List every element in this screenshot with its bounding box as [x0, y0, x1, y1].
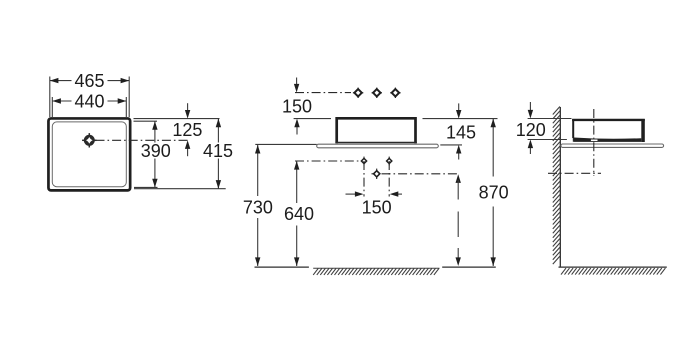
- supply centerline row B: [382, 173, 458, 175]
- dim 390 line + arrows: [152, 121, 157, 187]
- dim 145 arrow below: [456, 145, 461, 160]
- basin front bottom edge: [335, 142, 416, 144]
- dim 120 bottom extension line: [528, 139, 567, 141]
- drain centerline row A: [295, 160, 359, 162]
- svg-text:730: 730: [243, 198, 273, 218]
- svg-text:870: 870: [479, 182, 509, 202]
- svg-text:120: 120: [516, 120, 546, 140]
- dim 150 top arrow above: [294, 78, 299, 93]
- dim 150 bottom arrow left: [346, 191, 364, 196]
- drain hole symbol A2: [387, 157, 392, 166]
- drain symbol: [82, 133, 96, 147]
- dim 120 arrow below: [528, 140, 533, 155]
- svg-text:145: 145: [446, 122, 476, 142]
- svg-text:150: 150: [362, 197, 392, 217]
- basin inner rim (top view): [52, 122, 126, 187]
- dim 150 bottom arrow right: [390, 191, 402, 196]
- basin outer rim (top view): [48, 118, 130, 190]
- dim 125 arrow below: [185, 140, 190, 156]
- dim 120 arrow above: [528, 102, 533, 119]
- floor (front view): [255, 267, 496, 275]
- dim 150 top arrow below: [294, 119, 299, 135]
- dim 465 line + arrows: [50, 78, 129, 83]
- svg-text:150: 150: [282, 97, 312, 117]
- drain centerline: [96, 139, 191, 141]
- dim 415 line + arrows: [216, 119, 221, 189]
- wall hatching: [553, 107, 560, 265]
- countertop extension line left: [255, 143, 316, 145]
- dim 465 extension line left: [49, 77, 51, 118]
- svg-text:390: 390: [141, 141, 171, 161]
- dim 465 extension line right: [128, 77, 130, 118]
- svg-text:440: 440: [74, 91, 104, 111]
- dim 870 line + arrows: [491, 119, 496, 266]
- vertical drop line A1: [363, 161, 365, 197]
- tap centerline: [295, 92, 351, 94]
- wall line: [559, 107, 561, 267]
- tap hole symbol 2: [372, 88, 382, 98]
- extension line inner-bottom right: [134, 186, 158, 188]
- supply line (side): [548, 172, 601, 174]
- dim 145 arrow above: [456, 103, 461, 118]
- tap hole symbol 3: [390, 88, 400, 98]
- basin centerline (side): [593, 109, 595, 176]
- dim 440 extension line right: [125, 97, 127, 117]
- drain hole symbol A1: [361, 157, 366, 166]
- extension line inner-top right: [134, 120, 158, 122]
- countertop extension line right: [440, 144, 462, 146]
- dim 440 line + arrows: [52, 98, 126, 103]
- dim 730 line + arrows: [255, 145, 260, 266]
- svg-text:415: 415: [203, 141, 233, 161]
- floor (side view): [559, 267, 667, 275]
- drain height line (unlabeled): [456, 174, 461, 266]
- extension line outer-bottom right: [134, 188, 226, 190]
- basin front view: [337, 118, 416, 143]
- vertical drop line A2: [388, 161, 390, 197]
- svg-text:640: 640: [284, 204, 314, 224]
- supply hole symbol B: [372, 169, 380, 179]
- svg-text:465: 465: [74, 71, 104, 91]
- dim 125 arrow above: [185, 103, 190, 118]
- dim 440 extension line left: [51, 97, 53, 117]
- basin side view: [572, 119, 645, 142]
- countertop side view: [561, 144, 664, 147]
- tap hole symbol 1: [353, 88, 363, 98]
- basin top extension line left: [294, 118, 331, 120]
- countertop front view: [317, 144, 439, 148]
- basin top extension line right: [423, 118, 498, 120]
- svg-text:125: 125: [172, 120, 202, 140]
- dim 640 line + arrows: [294, 161, 299, 266]
- extension line outer-top right: [134, 118, 220, 120]
- dim 120 top extension line: [528, 118, 572, 120]
